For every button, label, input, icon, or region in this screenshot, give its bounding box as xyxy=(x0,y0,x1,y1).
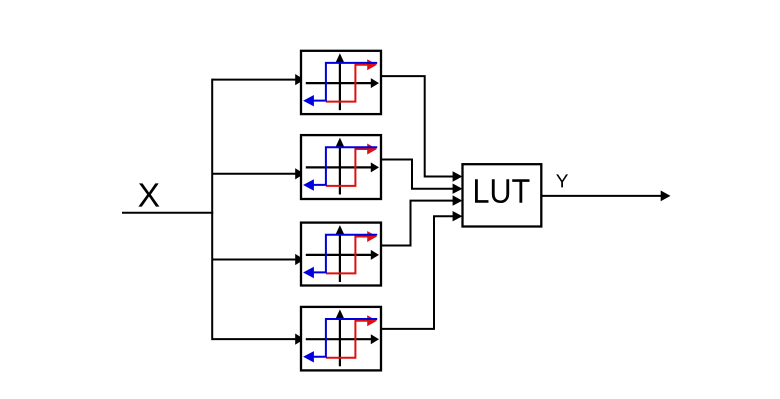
wire: H1 output to LUT xyxy=(381,76,462,182)
H4 rising-threshold curve (red) xyxy=(326,315,377,357)
input label X xyxy=(138,183,159,206)
wire: H4 output to LUT xyxy=(381,211,462,329)
H2 falling-threshold curve (blue) xyxy=(303,147,377,191)
wire: branch 4 to comparator H4 xyxy=(212,334,304,345)
comparator block H1 box xyxy=(301,51,381,114)
H1 horizontal axis arrow xyxy=(306,78,379,88)
LUT block U1 xyxy=(463,164,542,226)
H1 vertical axis arrow xyxy=(336,53,345,110)
H3 falling-threshold curve (blue) xyxy=(303,235,377,279)
H3 vertical axis arrow xyxy=(336,225,345,282)
H1 falling-threshold curve (blue) xyxy=(303,63,377,107)
H4 vertical axis arrow xyxy=(336,309,345,366)
comparator block H4 box xyxy=(301,307,381,371)
wire: input bus vertical xyxy=(211,79,213,341)
output label Y xyxy=(556,174,568,187)
comparator block H3 box xyxy=(301,223,381,286)
wire: branch 2 to comparator H2 xyxy=(212,168,304,179)
H2 vertical axis arrow xyxy=(336,138,345,195)
H1 rising-threshold curve (red) xyxy=(326,59,377,101)
wire: input X horizontal xyxy=(122,212,213,214)
H4 horizontal axis arrow xyxy=(306,334,379,344)
H2 rising-threshold curve (red) xyxy=(326,144,377,186)
H3 horizontal axis arrow xyxy=(306,250,379,260)
comparator block H2 box xyxy=(301,135,381,199)
H4 falling-threshold curve (blue) xyxy=(303,319,377,363)
wire: branch 1 to comparator H1 xyxy=(212,74,304,85)
wire: branch 3 to comparator H3 xyxy=(212,254,304,265)
wire: H2 output to LUT xyxy=(381,160,462,194)
H2 horizontal axis arrow xyxy=(306,162,379,172)
LUT label xyxy=(475,179,530,203)
wire: output Y with arrow xyxy=(541,191,670,202)
H3 rising-threshold curve (red) xyxy=(326,231,377,273)
wire: H3 output to LUT xyxy=(381,195,462,245)
